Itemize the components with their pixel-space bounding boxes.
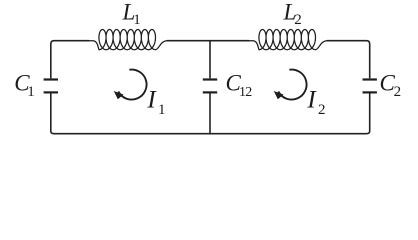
svg-text:2: 2 xyxy=(394,84,402,100)
wire: bottom-right corner xyxy=(367,131,370,134)
wire: left vertical (bottom segment below C1) xyxy=(50,94,52,132)
wire: top horizontal between L1 and L2 xyxy=(167,40,249,42)
wire: top-right corner xyxy=(367,41,370,44)
wire: outer loop rectangle xyxy=(51,41,370,134)
wire: right vertical (top segment above C2) xyxy=(369,44,371,78)
capacitor C2 (plates) xyxy=(363,80,377,93)
svg-text:1: 1 xyxy=(27,84,35,100)
svg-text:2: 2 xyxy=(294,12,302,28)
svg-text:12: 12 xyxy=(239,85,252,100)
svg-text:I: I xyxy=(146,86,157,113)
capacitor C12 (plates) xyxy=(203,80,217,93)
capacitor C1 (plates) xyxy=(44,80,58,93)
wire: bottom-left corner xyxy=(51,131,54,134)
mesh current I1 arrow (clockwise arc) xyxy=(114,70,147,100)
inductor L2 (coil) xyxy=(247,30,329,50)
wire: bottom horizontal xyxy=(54,133,367,135)
wire: right vertical (bottom segment below C2) xyxy=(369,94,371,132)
wire: left vertical (top segment above C1) xyxy=(50,44,52,78)
wire: middle vertical (top segment above C12) xyxy=(209,41,211,79)
wire: top horizontal right of L2 xyxy=(327,40,367,42)
mesh current I2 arrow (clockwise arc) xyxy=(274,70,307,100)
inductor L1 (coil) xyxy=(87,30,169,50)
svg-text:I: I xyxy=(306,86,317,113)
wire: top horizontal left of L1 xyxy=(54,40,89,42)
svg-text:1: 1 xyxy=(133,12,141,28)
svg-text:2: 2 xyxy=(318,102,326,118)
wire: top-left corner xyxy=(51,41,54,44)
wire: middle vertical (bottom segment below C12) xyxy=(209,94,211,134)
svg-text:1: 1 xyxy=(158,102,166,118)
